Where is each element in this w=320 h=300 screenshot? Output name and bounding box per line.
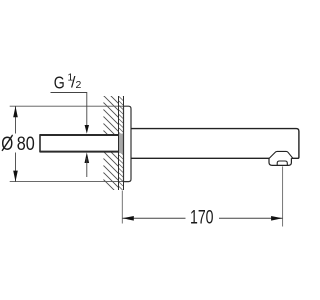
shank thick bottom edge — [40, 151, 118, 153]
svg-text:2: 2 — [76, 79, 82, 91]
Ø80 arrow down — [13, 171, 18, 182]
aerator housing below spout — [269, 158, 291, 165]
outlet dome curve — [269, 151, 293, 158]
diameter symbol slash extension — [2, 135, 13, 151]
G 1/2 leader arrow (down, to shank top) — [85, 125, 89, 134]
thread arrow (up, to shank bottom) — [85, 152, 90, 163]
shank thick top edge — [40, 134, 118, 136]
Ø80 arrow up — [13, 106, 18, 117]
svg-text:80: 80 — [17, 133, 35, 155]
shank section through wall (grey) — [118, 134, 124, 154]
dimension extension line (flange bottom, y=181.6) — [10, 181, 124, 183]
170 arrow left — [123, 216, 134, 221]
thread arrow tail — [86, 158, 88, 177]
170 dimension extension line (wall) — [121, 191, 123, 224]
aerator ring — [277, 161, 287, 165]
inlet shank (G 1/2 pipe), white body — [40, 134, 119, 153]
170 dimension line — [122, 217, 185, 219]
spout body bottom edge — [131, 157, 269, 159]
170 dimension extension line (outlet) — [282, 166, 284, 226]
dimension extension line (flange top, y=106.2) — [10, 105, 124, 107]
170 arrow right — [271, 216, 282, 221]
shank left end cap — [39, 134, 41, 152]
wall hatching (thin finish layer) — [119, 92, 123, 191]
G 1/2 leader line — [51, 93, 87, 126]
wall surface line (rough wall) — [118, 96, 120, 190]
svg-text:G: G — [54, 72, 65, 92]
wall surface line (finished wall) — [123, 96, 125, 190]
wall flange / escutcheon (Ø80) — [124, 106, 132, 181]
wall hatching (main band) — [99, 84, 125, 201]
spout body outline (top + right edge) — [131, 129, 299, 159]
Ø80 dimension line (vertical, with text gap) — [15, 106, 17, 133]
svg-text:170: 170 — [190, 208, 214, 229]
